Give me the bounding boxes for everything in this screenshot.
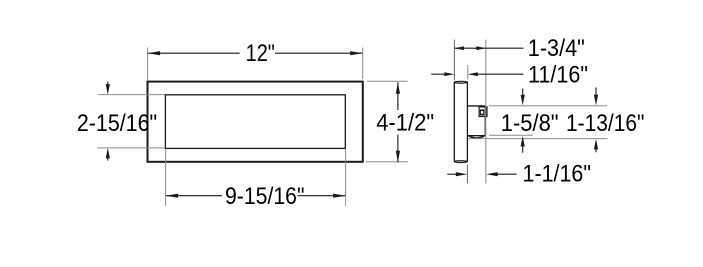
side view: housing top edge	[467, 105, 485, 107]
side view: housing bottom edge	[467, 135, 485, 137]
svg-text:12": 12"	[246, 41, 275, 67]
arrowhead, 1-3/4" left	[454, 46, 464, 50]
side view: housing rear edge	[484, 106, 486, 136]
extension line, right, for 9-15/16" dimension	[345, 149, 347, 206]
arrowhead, 1-5/8" top (points down)	[521, 95, 525, 106]
side view: wiring clip inner hole	[481, 111, 483, 114]
svg-text:1-1/16": 1-1/16"	[523, 162, 592, 188]
extension line, bottom, for 4-1/2" dimension	[366, 161, 408, 163]
arrowhead, 1-1/16" left (points right)	[456, 172, 468, 176]
extension line, middle stub, for 11/16" dimension	[467, 65, 469, 80]
extension line, right, for 12" dimension	[362, 48, 364, 80]
extension line, right (long), for 1-3/4" and 1-1/16" dimensions	[485, 40, 487, 184]
arrowhead, 1-3/4" right	[476, 46, 486, 50]
arrowhead, 9-15/16" left	[166, 194, 179, 198]
leader tail, 1-13/16" bottom	[595, 148, 597, 153]
leader tail, 1-5/8" bottom	[522, 145, 524, 153]
leader tail, 2-15/16" bottom	[107, 157, 109, 161]
arrowhead, 12" right	[350, 51, 363, 55]
arrowhead, 4-1/2" bottom (points down)	[396, 151, 400, 163]
extension line, left, for 9-15/16" dimension	[165, 149, 167, 206]
dimension line 9-15/16", left segment	[166, 195, 222, 197]
dimension line 4-1/2", upper segment	[397, 82, 399, 110]
front view: inner opening rectangle	[165, 95, 345, 149]
side view: wiring clip rear bar	[485, 107, 487, 117]
arrowhead, 11/16" left (points right)	[444, 72, 454, 76]
front view: outer frame rectangle	[148, 82, 363, 162]
dimension line 12", left segment	[148, 52, 240, 54]
dimension line 1-3/4" with leader to label	[455, 47, 524, 49]
arrowhead, 9-15/16" right	[333, 194, 346, 198]
side view: housing bottom rim arc	[469, 136, 485, 138]
side view: flange front face, left edge	[453, 82, 455, 161]
arrowhead, 4-1/2" top (points up)	[396, 82, 400, 94]
extension line, bottom, for 1-13/16" dimension	[468, 138, 608, 140]
arrowhead, 1-13/16" top (points down)	[594, 95, 598, 106]
extension line, left, for 12" dimension	[147, 48, 149, 81]
extension line, left, for 1-3/4" and 11/16" dimensions	[453, 40, 455, 81]
leader line, 11/16" right to label	[477, 73, 524, 75]
dimension line 12", right segment	[275, 52, 362, 54]
extension line, top, for 2-15/16" dimension	[98, 94, 165, 96]
side view: wiring clip outline	[479, 107, 487, 117]
extension line, bottom, for 2-15/16" dimension	[97, 147, 165, 149]
leader tail, 1-1/16" left	[447, 173, 458, 175]
leader tail, 11/16" left	[431, 73, 446, 75]
arrowhead, 1-1/16" right (points left)	[486, 172, 498, 176]
leader line, 1-1/16" right to label	[496, 173, 517, 175]
arrowhead, 2-15/16" top (points down)	[106, 84, 110, 95]
svg-text:2-15/16": 2-15/16"	[77, 111, 157, 137]
arrowhead, 2-15/16" bottom (points up)	[106, 148, 110, 159]
dimension line 9-15/16", right segment	[298, 195, 346, 197]
extension line, bottom, for 1-5/8" dimension	[489, 134, 533, 136]
arrowhead, 12" left	[148, 51, 161, 55]
side view: flange bottom rim (lens)	[454, 161, 467, 163]
svg-text:11/16": 11/16"	[528, 63, 588, 89]
leader tail, 1-5/8" top	[522, 89, 524, 97]
svg-text:4-1/2": 4-1/2"	[376, 111, 434, 137]
extension line, top, shared by 1-5/8" and 1-13/16" dimensions	[489, 105, 607, 107]
svg-text:1-5/8": 1-5/8"	[501, 111, 559, 137]
extension line, top, for 4-1/2" dimension	[367, 80, 408, 82]
leader tail, 1-13/16" top	[595, 88, 597, 97]
side view: wiring clip inner block	[480, 109, 484, 115]
arrowhead, 11/16" right (points left)	[468, 72, 478, 76]
svg-text:9-15/16": 9-15/16"	[225, 184, 305, 210]
arrowhead, 1-13/16" bottom (points up)	[594, 139, 598, 150]
side view: flange top rim (lens)	[454, 81, 467, 83]
dimension line 4-1/2", lower segment	[397, 135, 399, 163]
svg-text:1-3/4": 1-3/4"	[528, 36, 585, 62]
side view: flange rear face, right edge	[466, 82, 468, 161]
arrowhead, 1-5/8" bottom (points up)	[521, 136, 525, 147]
leader tail, 2-15/16" top	[107, 82, 109, 86]
extension line, left, for 1-1/16" dimension	[466, 165, 468, 184]
svg-text:1-13/16": 1-13/16"	[566, 111, 645, 137]
